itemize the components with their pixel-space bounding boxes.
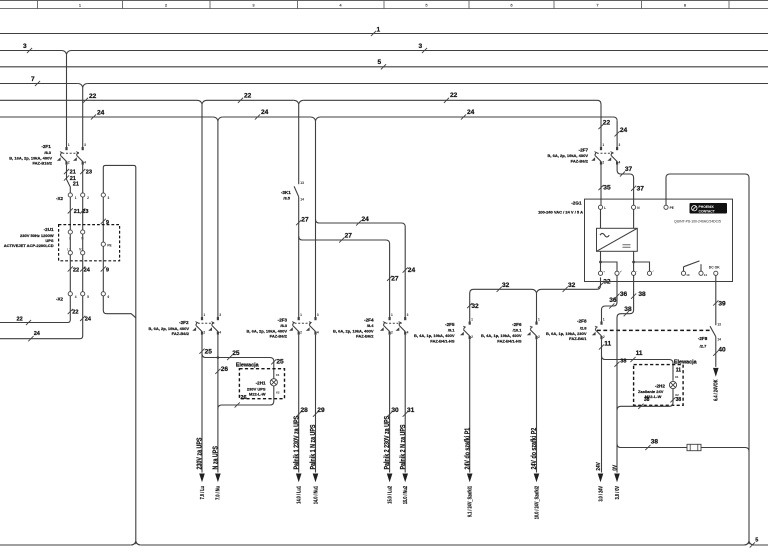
svg-text:13: 13	[686, 273, 690, 277]
svg-text:L': L'	[67, 248, 70, 252]
svg-text:/9.1: /9.1	[448, 328, 455, 333]
svg-text:-2F3: -2F3	[278, 318, 288, 323]
svg-text:6.4 / 24VOK: 6.4 / 24VOK	[713, 379, 719, 401]
svg-text:B, 4A, 1p, 19kA, 400V: B, 4A, 1p, 19kA, 400V	[481, 333, 522, 338]
svg-text:27: 27	[391, 275, 399, 282]
svg-text:UPS: UPS	[45, 238, 54, 243]
svg-text:14.0 / Nu1: 14.0 / Nu1	[313, 486, 319, 505]
svg-text:28: 28	[301, 407, 309, 414]
svg-text:38: 38	[644, 397, 650, 403]
svg-text:40: 40	[718, 347, 726, 354]
svg-text:15.0 / Nu2: 15.0 / Nu2	[403, 486, 409, 505]
svg-text:0V: 0V	[612, 464, 618, 470]
svg-text:25: 25	[232, 350, 240, 357]
svg-text:DC OK: DC OK	[709, 266, 720, 270]
svg-text:24: 24	[34, 331, 41, 337]
svg-text:2: 2	[300, 330, 302, 334]
svg-text:1: 1	[300, 313, 302, 317]
svg-text:22: 22	[244, 93, 252, 100]
svg-text:7: 7	[31, 76, 35, 83]
svg-text:-X2: -X2	[56, 196, 64, 201]
svg-text:21: 21	[70, 170, 76, 176]
svg-text:25: 25	[276, 359, 284, 366]
svg-text:/2.8: /2.8	[580, 325, 587, 330]
svg-text:24: 24	[261, 109, 269, 116]
svg-text:10.0 / 24V_Szafki2: 10.0 / 24V_Szafki2	[534, 486, 540, 520]
svg-text:24V: 24V	[596, 462, 602, 471]
svg-text:24: 24	[84, 267, 91, 273]
svg-text:9.1 / 24V_Szafki1: 9.1 / 24V_Szafki1	[467, 486, 473, 518]
svg-text:1: 1	[603, 317, 605, 321]
svg-text:38: 38	[676, 397, 682, 403]
svg-text:3: 3	[407, 313, 409, 317]
svg-text:39: 39	[718, 300, 726, 307]
svg-text:-2H2: -2H2	[655, 383, 665, 388]
svg-text:1: 1	[377, 26, 381, 33]
svg-text:FAZ-B16/2: FAZ-B16/2	[32, 161, 52, 166]
svg-text:30: 30	[391, 407, 399, 414]
svg-text:Palnik 2 230V za UPS: Palnik 2 230V za UPS	[384, 416, 392, 470]
svg-text:/2.7: /2.7	[700, 344, 707, 349]
svg-text:24: 24	[97, 110, 105, 117]
svg-text:ACTIVEJET ACP-2200LCD: ACTIVEJET ACP-2200LCD	[4, 243, 54, 248]
svg-text:22: 22	[89, 93, 97, 100]
svg-text:X1: X1	[276, 373, 280, 377]
svg-text:/8.3: /8.3	[44, 150, 51, 155]
svg-text:2: 2	[68, 160, 70, 164]
svg-text:21: 21	[74, 209, 80, 215]
svg-text:-2F4: -2F4	[364, 318, 374, 323]
svg-text:/3.5: /3.5	[283, 195, 290, 200]
svg-text:6: 6	[108, 295, 110, 299]
svg-text:11: 11	[636, 350, 643, 357]
svg-text:N': N'	[79, 248, 82, 252]
svg-text:36: 36	[620, 291, 628, 298]
svg-text:L: L	[604, 206, 606, 210]
svg-text:+': +'	[620, 270, 623, 274]
svg-text:1: 1	[391, 313, 393, 317]
svg-text:3: 3	[108, 196, 110, 200]
svg-text:32: 32	[471, 303, 479, 310]
svg-text:X1: X1	[675, 375, 679, 379]
svg-text:-2F8: -2F8	[698, 336, 708, 341]
svg-text:22: 22	[17, 317, 23, 323]
svg-text:-2F2: -2F2	[179, 320, 189, 325]
svg-text:7.0 / Lu: 7.0 / Lu	[199, 486, 205, 500]
svg-text:FAZ-B6/2: FAZ-B6/2	[270, 333, 288, 338]
svg-text:B, 4A, 1p, 19kA, 400V: B, 4A, 1p, 19kA, 400V	[414, 333, 455, 338]
svg-text:13: 13	[717, 323, 721, 327]
svg-text:14.0 / Lu1: 14.0 / Lu1	[296, 486, 302, 504]
svg-text:23: 23	[86, 170, 92, 176]
svg-text:Palnik 1 N za UPS: Palnik 1 N za UPS	[309, 425, 317, 470]
svg-text:CONTACT: CONTACT	[699, 209, 716, 213]
svg-text:-2F1: -2F1	[41, 144, 51, 149]
svg-text:22: 22	[72, 310, 78, 316]
svg-text:230V za UPS: 230V za UPS	[196, 438, 204, 470]
svg-text:FAZ-B6/1: FAZ-B6/1	[569, 336, 587, 341]
svg-text:26: 26	[221, 366, 229, 373]
svg-text:38: 38	[620, 358, 626, 364]
svg-text:27: 27	[301, 217, 309, 224]
svg-text:24V do szafki P2: 24V do szafki P2	[530, 427, 538, 469]
svg-text:11: 11	[604, 340, 611, 347]
svg-text:B, 6A, 2p, 19kA, 400V: B, 6A, 2p, 19kA, 400V	[548, 153, 589, 158]
svg-text:2: 2	[87, 196, 89, 200]
svg-text:22: 22	[603, 119, 611, 126]
svg-text:-2U1: -2U1	[44, 227, 54, 232]
svg-text:1: 1	[602, 143, 604, 147]
svg-text:FAZ-B6/2: FAZ-B6/2	[571, 159, 589, 164]
svg-text:3: 3	[619, 143, 621, 147]
svg-text:-2F7: -2F7	[579, 148, 589, 153]
svg-text:36: 36	[609, 297, 617, 304]
svg-text:100-240 VAC / 24 V / 5 A: 100-240 VAC / 24 V / 5 A	[538, 209, 583, 214]
svg-text:FAZ-B4/1-HS: FAZ-B4/1-HS	[430, 339, 455, 344]
svg-text:27: 27	[345, 232, 353, 239]
svg-text:4: 4	[84, 160, 86, 164]
svg-text:24: 24	[362, 216, 370, 223]
svg-text:-2F8: -2F8	[577, 319, 587, 324]
svg-text:-X2: -X2	[56, 296, 64, 301]
svg-text:+: +	[603, 270, 605, 274]
svg-text:11: 11	[676, 368, 682, 374]
svg-text:4: 4	[317, 330, 319, 334]
svg-text:32: 32	[502, 282, 510, 289]
svg-text:14: 14	[717, 338, 721, 342]
svg-text:1: 1	[68, 143, 70, 147]
svg-text:-2F5: -2F5	[445, 322, 455, 327]
svg-text:14: 14	[704, 273, 708, 277]
svg-text:2: 2	[471, 335, 473, 339]
svg-text:25: 25	[205, 349, 213, 356]
svg-text:32: 32	[603, 279, 611, 286]
svg-text:23: 23	[82, 209, 88, 215]
svg-text:15.0 / Lu2: 15.0 / Lu2	[387, 486, 393, 504]
svg-text:3: 3	[84, 143, 86, 147]
svg-text:1: 1	[75, 196, 77, 200]
svg-text:31: 31	[407, 407, 415, 414]
svg-text:M22-L-W: M22-L-W	[249, 392, 266, 397]
svg-text:Elewacja: Elewacja	[236, 363, 260, 369]
svg-text:4: 4	[407, 330, 409, 334]
svg-text:-2H1: -2H1	[256, 380, 266, 385]
svg-text:1: 1	[471, 317, 473, 321]
svg-text:B, 6A, 1p, 19kA, 230V: B, 6A, 1p, 19kA, 230V	[546, 331, 587, 336]
svg-text:37: 37	[625, 166, 633, 173]
svg-text:24: 24	[408, 267, 416, 274]
svg-text:14: 14	[300, 197, 304, 201]
svg-text:X2: X2	[276, 390, 280, 394]
svg-text:-: -	[636, 270, 637, 274]
svg-text:38: 38	[651, 439, 659, 446]
svg-text:PE: PE	[107, 243, 111, 247]
svg-text:Palnik 1 230V za UPS: Palnik 1 230V za UPS	[293, 416, 301, 470]
svg-text:21: 21	[73, 181, 79, 187]
svg-text:5: 5	[755, 538, 758, 544]
svg-text:37: 37	[637, 186, 645, 193]
svg-text:2: 2	[391, 330, 393, 334]
svg-text:3: 3	[23, 43, 27, 50]
svg-text:1: 1	[538, 317, 540, 321]
svg-text:4: 4	[75, 295, 77, 299]
svg-text:7.0 / Nu: 7.0 / Nu	[215, 486, 221, 500]
svg-text:2: 2	[538, 335, 540, 339]
svg-text:1: 1	[203, 313, 205, 317]
svg-text:13: 13	[300, 181, 304, 185]
svg-text:9: 9	[106, 267, 109, 273]
svg-text:3.0 / 0V: 3.0 / 0V	[614, 486, 620, 499]
svg-text:-2G1: -2G1	[571, 200, 582, 205]
svg-text:2: 2	[602, 160, 604, 164]
svg-text:5: 5	[87, 295, 89, 299]
svg-text:4: 4	[619, 160, 621, 164]
svg-text:38: 38	[638, 291, 646, 298]
svg-text:24: 24	[620, 127, 628, 134]
svg-text:24V do szafki P1: 24V do szafki P1	[464, 427, 472, 469]
svg-text:QUINT-PS-100-240AC/24DC/5: QUINT-PS-100-240AC/24DC/5	[674, 220, 721, 224]
svg-text:32: 32	[568, 282, 576, 289]
svg-text:3: 3	[317, 313, 319, 317]
svg-text:24: 24	[85, 316, 92, 322]
svg-text:3: 3	[419, 43, 423, 50]
svg-text:26: 26	[240, 395, 246, 401]
svg-text:22: 22	[450, 92, 458, 99]
svg-text:4: 4	[219, 330, 221, 334]
svg-text:3: 3	[219, 313, 221, 317]
svg-text:FAZ-B6/2: FAZ-B6/2	[356, 333, 374, 338]
svg-text:3.0 / 24V: 3.0 / 24V	[598, 486, 604, 502]
svg-text:2: 2	[603, 335, 605, 339]
svg-text:24: 24	[467, 109, 475, 116]
svg-text:Palnik 2 N za UPS: Palnik 2 N za UPS	[399, 425, 407, 470]
svg-text:-2F6: -2F6	[512, 322, 522, 327]
svg-text:2: 2	[203, 330, 205, 334]
svg-text:FAZ-B6/2: FAZ-B6/2	[172, 331, 190, 336]
svg-text:FAZ-B4/1-HS: FAZ-B4/1-HS	[497, 339, 522, 344]
svg-text:PE: PE	[670, 206, 674, 210]
svg-text:38: 38	[624, 306, 632, 313]
svg-text:5: 5	[378, 59, 382, 66]
svg-text:Elewacja: Elewacja	[674, 360, 698, 366]
svg-text:N za UPS: N za UPS	[212, 446, 220, 469]
svg-text:35: 35	[603, 185, 611, 192]
svg-text:/10.1: /10.1	[513, 328, 523, 333]
svg-text:22: 22	[73, 267, 79, 273]
svg-text:29: 29	[317, 407, 325, 414]
